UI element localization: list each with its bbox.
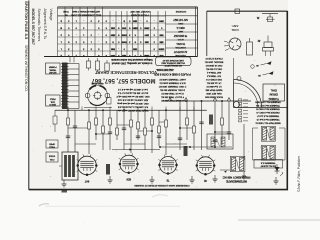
- svg-text:250M: 250M: [144, 54, 149, 56]
- svg-text:©John F. Rider, Publisher: ©John F. Rider, Publisher: [297, 155, 301, 192]
- ground symbol 2: [108, 176, 113, 183]
- svg-text:6A7 1ST.DET: 6A7 1ST.DET: [173, 18, 188, 21]
- svg-text:SPKR: SPKR: [49, 143, 55, 145]
- svg-text:75 2ND.DET: 75 2ND.DET: [173, 34, 187, 37]
- chart cell marks: [60, 19, 163, 56]
- svg-text:WAVE TRAP 456: WAVE TRAP 456: [205, 89, 223, 92]
- dial drum: [234, 58, 288, 108]
- svg-text:A.V.C.: A.V.C.: [177, 38, 184, 41]
- schematic box right border: [286, 11, 288, 190]
- dial drum label box: [263, 84, 285, 101]
- chart footnotes: [110, 58, 152, 64]
- band-trimmer list: [204, 57, 223, 98]
- antenna trimmer pictorial: [256, 14, 278, 22]
- chart tube row labels: [173, 18, 188, 56]
- speaker label box 2: [46, 152, 58, 162]
- svg-text:TRANS.: TRANS.: [49, 68, 57, 71]
- svg-text:ANT. 1400 KC adj trim A B r: ANT. 1400 KC adj trim A B rock: [117, 99, 148, 102]
- svg-text:CONDENSER GANG LOOKING AT REAR: CONDENSER GANG LOOKING AT REAR OF CHASSI…: [134, 184, 190, 187]
- svg-text:POLICE 1712 KC: POLICE 1712 KC: [205, 57, 223, 59]
- svg-text:1st I.F. 456 KC adj trim 4-5: 1st I.F. 456 KC adj trim 4-5 1-2: [117, 88, 147, 91]
- svg-text:OSC LO 600 KC: OSC LO 600 KC: [205, 68, 222, 70]
- trimmer definitions list: [158, 78, 186, 102]
- svg-text:BROADC 1400 KC: BROADC 1400 KC: [204, 61, 223, 64]
- wire arrow: [224, 171, 227, 173]
- page border left: [28, 1, 30, 190]
- svg-text:R.F. TRIM B-2: R.F. TRIM B-2: [206, 75, 221, 77]
- chart resistance values: [110, 20, 164, 56]
- tuning gang pictorial: [84, 82, 112, 108]
- IF transformer IF3: [261, 145, 275, 160]
- page border bottom: [29, 189, 288, 191]
- svg-text:DRUM: DRUM: [269, 93, 278, 97]
- IF transformer IF1: [230, 156, 245, 171]
- svg-text:to chassis, set operating. 100: to chassis, set operating. 1000 ohm/volt: [111, 61, 152, 64]
- svg-text:25M: 25M: [159, 41, 163, 43]
- svg-text:456 KC ADJUST: 456 KC ADJUST: [260, 165, 276, 168]
- svg-text:6A7: 6A7: [84, 180, 89, 183]
- page margin label SPARKS WITHINGTON CO.: [24, 45, 28, 92]
- svg-text:WAVETRAP No.7 456 KC: WAVETRAP No.7 456 KC: [255, 121, 281, 124]
- chart first column labels: [60, 20, 62, 56]
- scan smudge 3: [152, 195, 168, 197]
- svg-text:ANTENNA NORMAL C MAX: ANTENNA NORMAL C MAX: [72, 10, 100, 13]
- svg-text:1MEG: 1MEG: [132, 27, 138, 29]
- rider attribution: [297, 155, 301, 192]
- svg-text:SPARKS WITHINGTON CO.: SPARKS WITHINGTON CO.: [24, 45, 28, 92]
- padder pictorial: [247, 38, 253, 55]
- junction dots: [67, 100, 223, 150]
- vertical wires: [68, 101, 244, 160]
- svg-text:6D6: 6D6: [126, 178, 131, 181]
- svg-text:TUNING: TUNING: [269, 97, 279, 101]
- svg-text:2nd I.F. 456 KC adj trim 6-7: 2nd I.F. 456 KC adj trim 6-7 3-4: [117, 92, 148, 95]
- svg-text:25M: 25M: [133, 20, 137, 22]
- svg-text:SOCKET OSC SUP: SOCKET OSC SUP: [130, 10, 150, 12]
- svg-text:PADDER No.4 OSC LO: PADDER No.4 OSC LO: [256, 111, 279, 114]
- svg-text:ROCK GANG 600: ROCK GANG 600: [204, 96, 222, 99]
- ground symbol 3: [150, 176, 155, 183]
- oscillator trimmer pictorial: [257, 36, 273, 57]
- svg-text:DIAL SET 1500: DIAL SET 1500: [206, 92, 222, 95]
- oscillator coil: [207, 134, 233, 149]
- definitions row: [154, 73, 191, 76]
- svg-text:42 OUTPUT: 42 OUTPUT: [173, 50, 187, 53]
- definitions heading: [156, 68, 174, 72]
- trimmer legend: [239, 99, 281, 124]
- chart title MODELS: [91, 77, 156, 83]
- svg-text:6D6 I.F.: 6D6 I.F.: [176, 26, 185, 29]
- border tab: [62, 190, 68, 193]
- svg-text:E 1st I.F. TRIM 456 KC: E 1st I.F. TRIM 456 KC: [161, 92, 184, 95]
- svg-text:FIELD: FIELD: [49, 146, 55, 148]
- svg-text:PENTODE: PENTODE: [175, 54, 186, 56]
- detector diode: [275, 164, 284, 176]
- svg-text:TRIMMERS 5-6: TRIMMERS 5-6: [260, 161, 276, 163]
- bus connection arrows: [168, 98, 231, 101]
- svg-text:Voltage: Voltage: [49, 9, 53, 21]
- tube V1 6A7: [76, 154, 97, 182]
- trimmer flags: [251, 61, 274, 76]
- page margin label SPARTON PAGE 8-5: [24, 1, 29, 40]
- scan smudge 1: [39, 204, 49, 206]
- resistors: [67, 118, 224, 135]
- chassis note: [134, 184, 190, 187]
- svg-text:50M: 50M: [159, 34, 163, 36]
- svg-text:500M: 500M: [121, 34, 126, 36]
- svg-text:557-867: 557-867: [48, 71, 56, 73]
- power transformer label box 2: [46, 95, 61, 106]
- output transformer & speaker: [59, 152, 78, 180]
- svg-text:TRIMMER No.2 R.F. SH: TRIMMER No.2 R.F. SH: [256, 104, 280, 106]
- svg-text:Schematic,Trimmers: Schematic,Trimmers: [37, 9, 41, 42]
- IF frequency label: [223, 175, 251, 183]
- IF transformer IF2: [261, 126, 275, 141]
- ground symbol 7: [242, 172, 246, 179]
- scan fold line: [45, 205, 180, 207]
- svg-text:1800 O: 1800 O: [49, 103, 56, 105]
- ground symbol 4: [190, 176, 195, 183]
- tube V3 75: [158, 155, 178, 182]
- switch on top border: [235, 9, 240, 14]
- tube V2 6D6: [119, 153, 139, 180]
- svg-text:76 OSC.: 76 OSC.: [176, 42, 186, 45]
- svg-text:OSC. 600 KC pad adj rock gan: OSC. 600 KC pad adj rock gang: [117, 102, 149, 105]
- svg-text:CONTROL: CONTROL: [174, 46, 185, 48]
- svg-text:ANT TRIM A-1: ANT TRIM A-1: [206, 71, 221, 74]
- svg-text:10M: 10M: [111, 27, 115, 29]
- filter capacitors pictorial: [86, 58, 109, 74]
- svg-text:500M: 500M: [121, 41, 126, 43]
- svg-text:Alignment,S.P.&.Tu: Alignment,S.P.&.Tu: [43, 9, 47, 40]
- svg-text:TRIMMER No.5 1st I.F.: TRIMMER No.5 1st I.F.: [256, 114, 279, 117]
- index block text: [31, 9, 53, 45]
- antenna coil pictorial: [224, 38, 241, 51]
- svg-text:V PLATE SCREEN: V PLATE SCREEN: [131, 13, 149, 16]
- svg-text:No.: No.: [64, 13, 68, 15]
- svg-text:SPARTON PAGE 8-5: SPARTON PAGE 8-5: [24, 1, 29, 40]
- IF adjust label box: [254, 160, 283, 169]
- svg-text:OSC. 1500 KC set dial 1500 ad: OSC. 1500 KC set dial 1500 adj C: [116, 95, 150, 98]
- svg-text:-DEFINITIONS-: -DEFINITIONS-: [156, 68, 174, 72]
- svg-text:G: G: [60, 27, 62, 29]
- schematic box top border: [207, 10, 288, 12]
- note box: [156, 57, 192, 67]
- svg-text:FREQUENCY 456 KC: FREQUENCY 456 KC: [223, 175, 251, 179]
- chart grid: [44, 7, 198, 57]
- svg-text:P PLATE G GRID K CATH S SCR: P PLATE G GRID K CATH S SCR: [154, 73, 191, 76]
- speaker label box 1: [46, 110, 58, 148]
- power transformer label box 1: [46, 63, 61, 74]
- svg-text:Voltages measured from socket: Voltages measured from socket contacts: [110, 58, 152, 61]
- tube V4 42: [196, 155, 216, 182]
- chart header text: [63, 10, 187, 16]
- svg-text:50M: 50M: [122, 54, 126, 56]
- svg-text:VOICE: VOICE: [48, 155, 55, 157]
- scan noise: [6, 5, 281, 225]
- svg-text:FIELD: FIELD: [49, 98, 55, 100]
- scan smudge 2: [238, 219, 320, 220]
- svg-text:50M: 50M: [111, 48, 115, 50]
- svg-text:D OSC. PADDER 600 KC: D OSC. PADDER 600 KC: [160, 88, 185, 91]
- svg-text:COIL: COIL: [231, 28, 239, 32]
- AVC bus wire: [163, 100, 251, 102]
- svg-text:VOLTAGE-RESISTANCE CHART: VOLTAGE-RESISTANCE CHART: [94, 70, 157, 75]
- dark resistor R9: [106, 164, 110, 175]
- svg-text:NO SIGNAL INPUT: NO SIGNAL INPUT: [164, 64, 182, 67]
- svg-text:PAD COND C-3: PAD COND C-3: [205, 78, 221, 81]
- ground symbol 6: [274, 177, 279, 184]
- svg-text:250M: 250M: [144, 27, 149, 29]
- power transformer T1 winding: [61, 63, 69, 110]
- svg-text:A ANT. TRIMMER 1400 KC: A ANT. TRIMMER 1400 KC: [159, 78, 186, 81]
- svg-text:POWER: POWER: [48, 66, 56, 68]
- svg-text:50M: 50M: [122, 27, 126, 29]
- power transformer T1 taps: [68, 57, 80, 109]
- bus stubs: [68, 107, 194, 111]
- capacitors: [66, 122, 231, 142]
- hatched resistor: [209, 115, 213, 125]
- svg-text:CATHODE: CATHODE: [175, 10, 186, 13]
- svg-text:F 2nd I.F. TRIM 456 KC: F 2nd I.F. TRIM 456 KC: [161, 95, 184, 97]
- svg-text:1MEG: 1MEG: [158, 48, 164, 50]
- svg-text:I.F. 1st 456 KC: I.F. 1st 456 KC: [206, 82, 221, 85]
- ground symbol 5: [213, 175, 218, 182]
- if loop wires: [253, 128, 286, 160]
- svg-text:OSC.: OSC.: [177, 22, 183, 24]
- svg-text:BUZZ CONDENSER ALL COND: BUZZ CONDENSER ALL COND: [70, 13, 101, 16]
- svg-text:25M: 25M: [145, 41, 149, 43]
- alignment steps list: [116, 88, 150, 112]
- svg-text:AMP.: AMP.: [178, 30, 183, 33]
- svg-text:I.F. 2nd 456 KC: I.F. 2nd 456 KC: [206, 85, 221, 87]
- svg-text:TUBE: TUBE: [63, 10, 69, 12]
- B+ bus wire: [55, 109, 207, 111]
- svg-text:MODELS 557,567,867: MODELS 557,567,867: [31, 9, 35, 45]
- svg-text:OSC HI 1500 KC: OSC HI 1500 KC: [205, 64, 222, 66]
- svg-text:R.F. 1400 KC re-check trim A: R.F. 1400 KC re-check trim A B: [117, 106, 148, 109]
- schematic box inner left border: [206, 11, 208, 56]
- dark resistor R10: [184, 146, 188, 156]
- ground symbol 1: [62, 180, 67, 187]
- svg-text:B R.F. TRIMMER 1400 KC: B R.F. TRIMMER 1400 KC: [159, 81, 185, 83]
- svg-text:ANT.: ANT.: [231, 24, 238, 28]
- svg-text:50M: 50M: [133, 48, 137, 50]
- svg-text:C OSC. TRIMMER 1500 KC: C OSC. TRIMMER 1500 KC: [158, 85, 186, 87]
- ant coil label: [231, 24, 239, 32]
- svg-text:TRIMMER No.6 2nd I.F.: TRIMMER No.6 2nd I.F.: [256, 118, 280, 120]
- chart title VOLTAGE-RESISTANCE: [94, 70, 157, 75]
- svg-text:DIAL: DIAL: [270, 89, 276, 93]
- svg-text:50M: 50M: [159, 54, 163, 56]
- svg-text:INTERMEDIATE: INTERMEDIATE: [226, 179, 247, 183]
- interconnect wires: [68, 122, 285, 170]
- svg-text:GANG REAR: GANG REAR: [91, 82, 104, 85]
